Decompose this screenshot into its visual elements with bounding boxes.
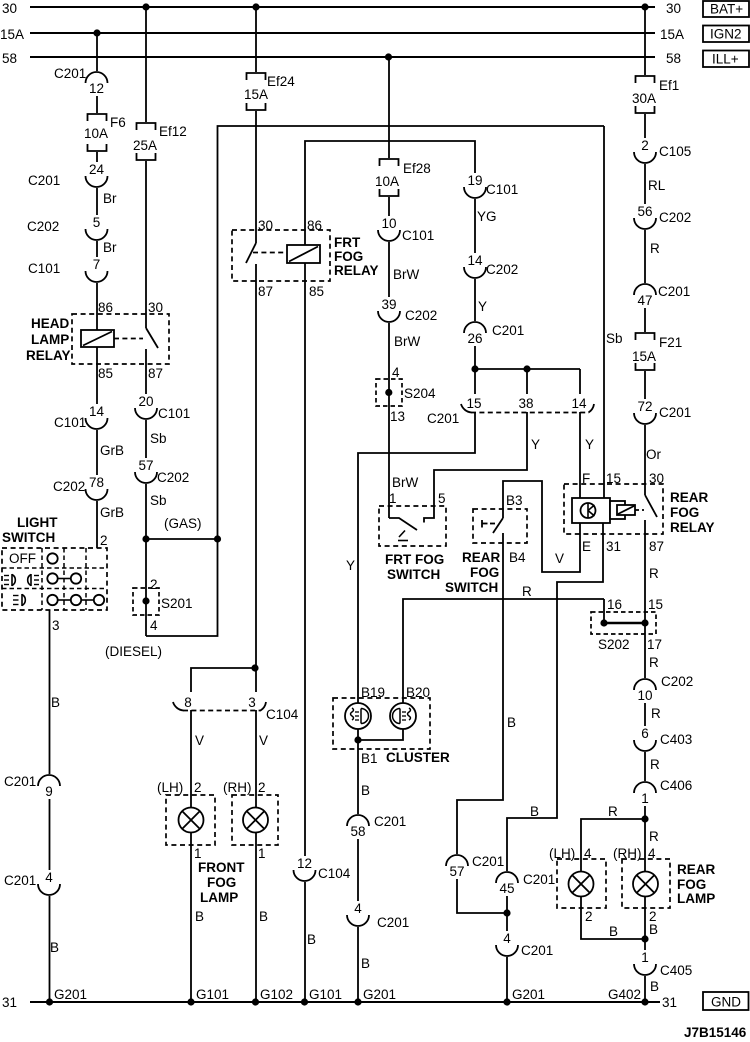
svg-text:2: 2 (100, 533, 108, 548)
svg-text:Ef1: Ef1 (659, 78, 679, 93)
svg-text:R: R (649, 655, 659, 670)
svg-text:14: 14 (467, 253, 483, 268)
svg-text:B: B (650, 979, 659, 994)
svg-text:F21: F21 (659, 335, 682, 350)
svg-text:B4: B4 (509, 550, 526, 565)
svg-text:S202: S202 (598, 637, 630, 652)
svg-text:REAR: REAR (670, 490, 709, 505)
svg-text:5: 5 (93, 215, 101, 230)
svg-text:GND: GND (711, 995, 741, 1010)
svg-text:85: 85 (98, 366, 113, 381)
svg-text:BrW: BrW (392, 475, 419, 490)
svg-text:R: R (522, 584, 532, 599)
svg-text:30: 30 (649, 471, 664, 486)
svg-text:Y: Y (585, 437, 594, 452)
svg-text:B1: B1 (361, 751, 378, 766)
svg-text:SWITCH: SWITCH (387, 567, 440, 582)
svg-text:78: 78 (89, 475, 104, 490)
svg-text:Sb: Sb (150, 493, 167, 508)
svg-text:SWITCH: SWITCH (445, 580, 498, 595)
svg-text:C201: C201 (521, 943, 553, 958)
svg-text:14: 14 (571, 396, 587, 411)
svg-text:47: 47 (637, 293, 652, 308)
svg-text:B: B (259, 909, 268, 924)
svg-text:R: R (608, 804, 618, 819)
svg-text:C101: C101 (54, 415, 86, 430)
svg-text:FOG: FOG (677, 877, 706, 892)
svg-text:8: 8 (184, 695, 192, 710)
svg-text:C201: C201 (28, 173, 60, 188)
svg-text:Or: Or (646, 447, 662, 462)
svg-text:2: 2 (641, 138, 649, 153)
svg-text:C201: C201 (523, 872, 555, 887)
svg-text:38: 38 (518, 396, 533, 411)
svg-text:15A: 15A (632, 349, 656, 364)
svg-text:R: R (651, 706, 661, 721)
svg-text:87: 87 (258, 284, 273, 299)
svg-text:GrB: GrB (100, 443, 124, 458)
svg-text:15: 15 (466, 396, 481, 411)
svg-text:OFF: OFF (9, 551, 36, 566)
svg-text:C201: C201 (427, 411, 459, 426)
svg-text:Ef24: Ef24 (267, 74, 295, 89)
svg-text:25A: 25A (133, 138, 157, 153)
svg-text:R: R (649, 566, 659, 581)
svg-text:C101: C101 (158, 406, 190, 421)
svg-text:87: 87 (649, 539, 664, 554)
svg-text:(RH): (RH) (613, 846, 642, 861)
svg-text:B: B (609, 924, 618, 939)
svg-text:56: 56 (637, 204, 652, 219)
svg-text:3: 3 (52, 618, 60, 633)
svg-text:C201: C201 (659, 405, 691, 420)
svg-text:C202: C202 (659, 210, 691, 225)
svg-text:1: 1 (389, 491, 397, 506)
svg-text:15A: 15A (244, 87, 268, 102)
svg-text:FRT: FRT (334, 235, 361, 250)
svg-text:19: 19 (467, 173, 482, 188)
svg-text:17: 17 (647, 637, 662, 652)
svg-text:LIGHT: LIGHT (17, 515, 58, 530)
svg-text:B: B (51, 695, 60, 710)
svg-text:C202: C202 (53, 479, 85, 494)
svg-text:C101: C101 (402, 228, 434, 243)
svg-text:1: 1 (641, 791, 649, 806)
svg-text:15A: 15A (660, 27, 684, 42)
svg-text:57: 57 (449, 864, 464, 879)
svg-text:2: 2 (258, 780, 266, 795)
svg-text:72: 72 (637, 399, 652, 414)
svg-text:2: 2 (150, 577, 158, 592)
svg-text:IGN2: IGN2 (710, 27, 742, 42)
svg-text:G201: G201 (363, 987, 396, 1002)
svg-text:C405: C405 (660, 963, 692, 978)
svg-text:1: 1 (641, 950, 649, 965)
svg-text:V: V (195, 733, 204, 748)
svg-text:G101: G101 (196, 987, 229, 1002)
svg-text:C406: C406 (660, 778, 692, 793)
svg-text:RELAY: RELAY (26, 348, 71, 363)
svg-text:20: 20 (138, 394, 153, 409)
svg-text:Ef12: Ef12 (159, 124, 187, 139)
svg-text:26: 26 (467, 331, 482, 346)
svg-text:85: 85 (309, 284, 324, 299)
svg-text:6: 6 (641, 726, 649, 741)
svg-text:(DIESEL): (DIESEL) (105, 644, 162, 659)
svg-text:C202: C202 (27, 219, 59, 234)
svg-text:7: 7 (93, 257, 101, 272)
svg-text:14: 14 (89, 404, 105, 419)
svg-text:FRONT: FRONT (198, 860, 245, 875)
svg-text:LAMP: LAMP (31, 332, 69, 347)
svg-text:S201: S201 (161, 596, 193, 611)
svg-text:4: 4 (584, 846, 592, 861)
svg-text:B: B (530, 804, 539, 819)
svg-text:ILL+: ILL+ (712, 52, 739, 67)
svg-text:B: B (361, 956, 370, 971)
svg-text:5: 5 (438, 491, 446, 506)
svg-text:C202: C202 (661, 674, 693, 689)
svg-text:Sb: Sb (150, 431, 167, 446)
svg-text:REAR: REAR (462, 550, 501, 565)
svg-text:12: 12 (89, 81, 104, 96)
svg-text:58: 58 (350, 824, 365, 839)
svg-text:C202: C202 (405, 308, 437, 323)
svg-text:C403: C403 (660, 732, 692, 747)
svg-text:BrW: BrW (393, 267, 420, 282)
svg-text:C201: C201 (658, 284, 690, 299)
svg-text:B: B (50, 940, 59, 955)
svg-text:86: 86 (98, 300, 113, 315)
svg-text:G201: G201 (54, 987, 87, 1002)
svg-text:12: 12 (297, 856, 312, 871)
svg-text:B: B (507, 715, 516, 730)
svg-text:10A: 10A (84, 126, 108, 141)
svg-text:R: R (650, 241, 660, 256)
svg-text:G101: G101 (309, 987, 342, 1002)
svg-text:LAMP: LAMP (200, 890, 238, 905)
svg-text:C202: C202 (486, 262, 518, 277)
svg-text:30: 30 (666, 1, 681, 16)
svg-text:30: 30 (2, 1, 17, 16)
svg-text:31: 31 (662, 995, 677, 1010)
svg-text:4: 4 (392, 365, 400, 380)
svg-text:Br: Br (103, 240, 117, 255)
svg-text:86: 86 (307, 218, 322, 233)
svg-text:15: 15 (606, 471, 621, 486)
svg-text:B: B (195, 909, 204, 924)
svg-text:C201: C201 (472, 854, 504, 869)
svg-text:FOG: FOG (670, 505, 699, 520)
svg-text:B: B (649, 922, 658, 937)
svg-text:1: 1 (194, 846, 202, 861)
svg-text:S204: S204 (404, 386, 436, 401)
svg-text:HEAD: HEAD (31, 316, 70, 331)
svg-text:(LH): (LH) (549, 846, 575, 861)
svg-text:CLUSTER: CLUSTER (386, 750, 450, 765)
svg-text:F: F (582, 471, 590, 486)
svg-text:C201: C201 (377, 915, 409, 930)
svg-text:C105: C105 (659, 144, 691, 159)
svg-text:(LH): (LH) (157, 780, 183, 795)
svg-text:Y: Y (531, 437, 540, 452)
svg-text:G201: G201 (512, 987, 545, 1002)
svg-text:31: 31 (2, 995, 17, 1010)
svg-text:V: V (259, 733, 268, 748)
svg-text:(GAS): (GAS) (164, 516, 202, 531)
svg-text:BrW: BrW (394, 334, 421, 349)
svg-text:(RH): (RH) (223, 780, 252, 795)
svg-text:FRT FOG: FRT FOG (385, 552, 444, 567)
svg-text:10: 10 (381, 216, 396, 231)
svg-text:16: 16 (607, 597, 622, 612)
svg-text:9: 9 (45, 784, 53, 799)
svg-text:87: 87 (148, 366, 163, 381)
svg-text:YG: YG (477, 209, 497, 224)
svg-text:C104: C104 (266, 707, 299, 722)
svg-text:R: R (650, 757, 660, 772)
svg-text:13: 13 (390, 409, 405, 424)
svg-text:FOG: FOG (470, 565, 499, 580)
svg-text:C201: C201 (492, 323, 524, 338)
svg-text:RELAY: RELAY (334, 263, 379, 278)
svg-text:FOG: FOG (207, 875, 236, 890)
svg-text:REAR: REAR (677, 862, 716, 877)
svg-text:45: 45 (499, 881, 514, 896)
svg-text:G402: G402 (608, 987, 641, 1002)
svg-text:Y: Y (478, 299, 487, 314)
svg-text:RL: RL (648, 178, 666, 193)
svg-text:E: E (582, 539, 591, 554)
svg-text:C201: C201 (54, 66, 86, 81)
svg-text:30: 30 (258, 218, 273, 233)
svg-text:4: 4 (354, 901, 362, 916)
svg-text:1: 1 (258, 846, 266, 861)
svg-text:G102: G102 (260, 987, 293, 1002)
svg-text:58: 58 (666, 51, 681, 66)
svg-text:C201: C201 (374, 814, 406, 829)
svg-text:C202: C202 (157, 470, 189, 485)
svg-text:Y: Y (346, 558, 355, 573)
svg-text:C101: C101 (486, 182, 518, 197)
svg-text:58: 58 (2, 51, 17, 66)
svg-text:RELAY: RELAY (670, 520, 715, 535)
svg-text:2: 2 (194, 780, 202, 795)
svg-text:31: 31 (606, 539, 621, 554)
svg-text:F6: F6 (110, 115, 126, 130)
svg-text:2: 2 (585, 909, 593, 924)
svg-text:30A: 30A (632, 91, 656, 106)
svg-text:LAMP: LAMP (677, 891, 715, 906)
svg-text:SWITCH: SWITCH (2, 530, 55, 545)
svg-text:Ef28: Ef28 (403, 161, 431, 176)
svg-text:4: 4 (45, 870, 53, 885)
svg-text:GrB: GrB (100, 505, 124, 520)
svg-text:J7B15146: J7B15146 (684, 1025, 747, 1040)
svg-text:24: 24 (89, 162, 105, 177)
svg-text:39: 39 (381, 297, 396, 312)
svg-text:Sb: Sb (606, 331, 623, 346)
svg-text:B: B (361, 783, 370, 798)
svg-text:C101: C101 (28, 261, 60, 276)
svg-text:B3: B3 (506, 493, 523, 508)
svg-text:B20: B20 (406, 685, 430, 700)
svg-text:C201: C201 (4, 873, 36, 888)
svg-text:C201: C201 (4, 774, 36, 789)
svg-text:3: 3 (248, 695, 256, 710)
svg-text:B19: B19 (361, 685, 385, 700)
svg-text:Br: Br (103, 191, 117, 206)
svg-text:4: 4 (503, 931, 511, 946)
svg-text:FOG: FOG (334, 249, 363, 264)
svg-text:30: 30 (148, 300, 163, 315)
svg-text:10: 10 (637, 688, 652, 703)
svg-text:BAT+: BAT+ (710, 2, 743, 17)
svg-text:C104: C104 (318, 866, 351, 881)
svg-text:15A: 15A (0, 27, 24, 42)
svg-text:57: 57 (138, 458, 153, 473)
svg-text:15: 15 (648, 597, 663, 612)
svg-text:4: 4 (648, 846, 656, 861)
svg-text:4: 4 (150, 618, 158, 633)
svg-text:B: B (307, 932, 316, 947)
svg-text:R: R (649, 829, 659, 844)
svg-text:V: V (555, 551, 564, 566)
svg-text:10A: 10A (375, 174, 399, 189)
